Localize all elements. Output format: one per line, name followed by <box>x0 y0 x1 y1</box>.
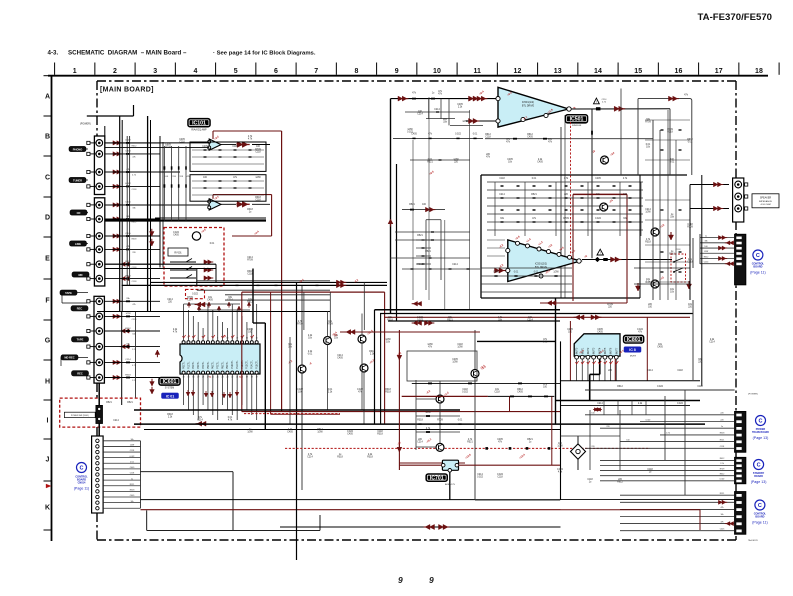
red diode pair D601 <box>149 232 154 237</box>
svg-text:IC501(1/2): IC501(1/2) <box>522 100 534 104</box>
connector CN601 speaker <box>733 178 744 222</box>
svg-text:10: 10 <box>433 68 441 75</box>
svg-text:R612: R612 <box>125 328 131 330</box>
thick bus y309.8 <box>375 309 561 311</box>
svg-text:F: F <box>45 297 50 304</box>
svg-text:R318: R318 <box>130 490 135 492</box>
left ruler ticks <box>44 75 52 77</box>
svg-text:C118: C118 <box>179 176 183 178</box>
svg-text:R318: R318 <box>367 457 373 459</box>
svg-text:IC501: IC501 <box>570 117 584 123</box>
jack J9 <box>96 261 103 268</box>
svg-text:C405: C405 <box>347 434 353 436</box>
bus y424 main <box>134 423 705 425</box>
svg-text:8: 8 <box>217 338 218 340</box>
amp resistor grid <box>487 181 643 183</box>
svg-text:C214: C214 <box>197 420 203 422</box>
svg-text:NJM2068: NJM2068 <box>572 125 582 127</box>
svg-text:C405: C405 <box>202 146 208 148</box>
svg-text:0.01: 0.01 <box>670 162 675 164</box>
transistor Q501 <box>601 156 609 164</box>
svg-text:C214: C214 <box>434 109 440 111</box>
gray vertical x475 <box>474 330 476 500</box>
bus y410 <box>134 409 460 411</box>
IC101 label <box>188 119 210 127</box>
svg-text:MD: MD <box>78 273 82 277</box>
svg-text:R318: R318 <box>669 254 675 256</box>
svg-text:LINE: LINE <box>75 242 81 246</box>
svg-text:R521: R521 <box>447 320 453 322</box>
svg-text:10k: 10k <box>130 501 133 503</box>
svg-text:MUT3: MUT3 <box>594 347 596 354</box>
svg-text:P5CTL: P5CTL <box>207 361 210 369</box>
power wires into box <box>98 383 100 405</box>
svg-text:30: 30 <box>192 377 194 379</box>
svg-text:C405: C405 <box>720 528 725 530</box>
amp2 input arrows <box>499 268 504 273</box>
wire top power feed <box>87 115 134 117</box>
svg-text:5: 5 <box>203 338 204 340</box>
svg-text:47k: 47k <box>186 176 189 178</box>
svg-text:22: 22 <box>231 377 233 379</box>
svg-text:0.01: 0.01 <box>534 272 539 274</box>
CN803 blue symbol <box>755 500 765 510</box>
IC801 label <box>624 335 644 343</box>
svg-text:I: I <box>47 417 49 424</box>
svg-text:C405: C405 <box>125 233 131 235</box>
svg-text:IMPEDANCE: IMPEDANCE <box>759 200 773 203</box>
wire center vertical bus 1 <box>296 282 298 560</box>
components column x416-431 <box>416 239 431 241</box>
svg-text:28: 28 <box>202 377 204 379</box>
IC IC701 regulator <box>442 460 458 470</box>
svg-text:11: 11 <box>473 68 481 75</box>
svg-text:1u: 1u <box>131 478 133 480</box>
svg-text:R709: R709 <box>327 324 333 326</box>
board outline right <box>735 81 737 540</box>
svg-text:R521: R521 <box>417 235 423 237</box>
svg-text:C214: C214 <box>597 403 603 405</box>
svg-text:TRANS BOARD: TRANS BOARD <box>752 431 769 434</box>
maroon vertical x399 <box>398 330 400 470</box>
verticals left band <box>303 292 305 330</box>
svg-text:IC801: IC801 <box>627 337 641 343</box>
svg-text:1/2W: 1/2W <box>457 347 463 349</box>
svg-text:1u: 1u <box>705 235 707 237</box>
transistor Q602 <box>298 365 306 373</box>
svg-text:R318: R318 <box>337 457 343 459</box>
svg-text:R709: R709 <box>165 147 171 149</box>
svg-text:100: 100 <box>704 246 707 248</box>
svg-text:47k: 47k <box>720 521 723 523</box>
jack row arrows <box>117 141 121 145</box>
svg-text:MUT2: MUT2 <box>588 347 590 354</box>
svg-text:CN814: CN814 <box>78 482 86 485</box>
svg-text:C118: C118 <box>494 392 500 394</box>
svg-text:1/2W: 1/2W <box>452 362 458 364</box>
svg-text:R318: R318 <box>417 420 423 422</box>
svg-text:C405: C405 <box>537 162 543 164</box>
svg-text:P4CTL: P4CTL <box>202 361 205 369</box>
bus y383.4 left <box>412 382 561 384</box>
svg-text:220: 220 <box>591 446 594 448</box>
svg-text:R521: R521 <box>127 402 133 404</box>
svg-text:BOARD: BOARD <box>755 516 764 519</box>
svg-text:15: 15 <box>634 68 642 75</box>
svg-text:R709: R709 <box>563 218 569 220</box>
muting relay dashed box RY601 <box>164 228 224 287</box>
IC701 label <box>426 474 447 481</box>
svg-text:C405: C405 <box>337 358 343 360</box>
IC601 top red marks <box>182 335 185 338</box>
svg-text:C118: C118 <box>697 386 703 388</box>
svg-text:C214: C214 <box>125 359 131 361</box>
maroon bus y317.3 <box>384 316 690 318</box>
svg-text:C214: C214 <box>647 370 653 372</box>
svg-text:SPEAKER: SPEAKER <box>760 197 772 200</box>
power switch body <box>96 405 103 423</box>
transistor Q601 <box>324 337 332 345</box>
svg-text:10: 10 <box>226 338 228 340</box>
svg-text:R521: R521 <box>425 251 431 253</box>
jack J10 <box>96 275 103 282</box>
svg-text:C405: C405 <box>657 347 663 349</box>
svg-text:R521: R521 <box>409 204 415 206</box>
mute dashed box 2 <box>186 289 205 298</box>
svg-text:R709: R709 <box>297 324 303 326</box>
svg-text:C: C <box>756 253 760 259</box>
svg-text:1/2W: 1/2W <box>317 432 323 434</box>
amp out wire right <box>571 108 670 110</box>
jack J13 <box>96 328 103 335</box>
svg-text:C214: C214 <box>452 264 458 266</box>
transistor Q603 <box>358 335 366 343</box>
svg-text:19: 19 <box>246 377 248 379</box>
connector CN802 control <box>735 234 746 284</box>
svg-text:D: D <box>45 214 50 221</box>
connector CN901 power <box>735 412 746 453</box>
maroon left arrow y332 <box>340 331 480 333</box>
left ruler red mark <box>46 484 51 488</box>
svg-text:1: 1 <box>73 68 77 75</box>
transistor Q505 <box>651 228 659 236</box>
svg-text:REC: REC <box>77 372 83 376</box>
svg-text:R318: R318 <box>125 374 131 376</box>
row y269 gray <box>402 268 480 270</box>
transistor Q703 <box>436 443 444 451</box>
power switch dashed box <box>60 398 141 427</box>
maroon arrows bottom <box>280 526 561 528</box>
bus band y281-301 <box>197 280 330 282</box>
svg-text:(Page 11): (Page 11) <box>750 271 766 275</box>
svg-text:BTL DRIVE: BTL DRIVE <box>522 105 535 108</box>
jack J3 <box>96 169 103 176</box>
relay contact box <box>168 248 188 256</box>
svg-text:R709: R709 <box>687 227 693 229</box>
wire vertical bus pair C <box>126 136 128 286</box>
svg-text:C118: C118 <box>677 370 683 372</box>
svg-text:220: 220 <box>720 413 723 415</box>
svg-text:10k: 10k <box>130 439 133 441</box>
CN803 feed wires <box>620 494 735 496</box>
svg-text:C118: C118 <box>130 473 134 475</box>
CN901 blue symbol <box>756 416 766 426</box>
op-amp IC101 2/2 <box>209 199 221 210</box>
ferrite bead FB102 <box>242 201 248 207</box>
svg-text:0.022: 0.022 <box>677 403 683 405</box>
svg-text:32: 32 <box>183 377 185 379</box>
svg-text:P6CTL: P6CTL <box>212 361 215 369</box>
svg-text:C118: C118 <box>720 446 724 448</box>
bus band y262-268 <box>105 263 216 265</box>
svg-text:1/2W: 1/2W <box>255 177 261 179</box>
vertical x560 down <box>560 341 562 499</box>
svg-text:R318: R318 <box>417 264 423 266</box>
warning triangle 1 <box>594 98 600 104</box>
IC801 thick L wire <box>599 359 601 375</box>
svg-text:TA-FE370/FE570: TA-FE370/FE570 <box>698 12 772 23</box>
svg-text:1/2W: 1/2W <box>557 446 563 448</box>
svg-text:MUT5: MUT5 <box>605 347 607 354</box>
svg-text:17: 17 <box>715 68 723 75</box>
right verticals power <box>639 175 641 298</box>
svg-text:R612: R612 <box>125 261 131 263</box>
maroon arrows mid band <box>413 301 418 306</box>
transistor Q506 <box>651 280 659 288</box>
maroon up arrow x390 <box>388 219 393 224</box>
svg-text:IC101: IC101 <box>192 121 206 127</box>
CN901 feed wires <box>585 414 735 416</box>
svg-text:R521: R521 <box>106 402 112 404</box>
svg-text:C214: C214 <box>113 420 119 422</box>
center mesh verticals <box>412 140 414 300</box>
svg-text:R709: R709 <box>645 122 651 124</box>
maroon feedback loop L <box>212 131 214 139</box>
svg-text:C214: C214 <box>709 342 715 344</box>
svg-text:23: 23 <box>226 377 228 379</box>
amp feedback row y138.7 <box>485 138 653 140</box>
svg-text:0.022: 0.022 <box>125 183 131 185</box>
right horizontals stubs <box>645 119 690 121</box>
filter box internals <box>192 149 264 151</box>
svg-text:31: 31 <box>187 377 189 379</box>
svg-text:A: A <box>45 93 50 100</box>
transistor Q604 <box>360 364 368 372</box>
rows near Q702 <box>416 415 460 417</box>
IC801 blue badge <box>624 347 641 353</box>
IC601 blue badge <box>162 393 179 399</box>
svg-text:P2CTL: P2CTL <box>192 361 195 369</box>
svg-text:18: 18 <box>755 68 763 75</box>
svg-text:· See page 14 for IC Block Dia: · See page 14 for IC Block Diagrams. <box>213 50 316 56</box>
filter loop box upper <box>190 142 266 171</box>
svg-text:(POWER): (POWER) <box>80 123 91 126</box>
svg-text:R521: R521 <box>427 162 433 164</box>
svg-text:TA-FE370: TA-FE370 <box>748 539 759 542</box>
svg-text:C214: C214 <box>417 114 423 116</box>
svg-text:R709: R709 <box>437 420 443 422</box>
wire vertical bus pair B <box>159 136 161 268</box>
svg-text:!: ! <box>596 100 597 104</box>
svg-text:MUTE: MUTE <box>630 356 637 358</box>
svg-text:C: C <box>45 174 50 181</box>
svg-text:0.022: 0.022 <box>462 392 468 394</box>
svg-text:0.022: 0.022 <box>477 477 483 479</box>
svg-text:0.01: 0.01 <box>210 243 215 245</box>
wires bottom long <box>561 499 735 501</box>
svg-text:9: 9 <box>429 575 434 585</box>
svg-text:4: 4 <box>193 68 197 75</box>
jack J11 <box>96 298 103 305</box>
svg-text:(POWER): (POWER) <box>748 394 758 396</box>
row y209.6 with arrow <box>402 209 445 211</box>
IC801 region verticals <box>603 401 605 416</box>
jack J7 <box>96 233 103 240</box>
CN802 blue page symbol <box>753 250 763 260</box>
IC601 bottom pin wires <box>183 374 185 405</box>
svg-text:C405: C405 <box>493 272 499 274</box>
svg-text:0.01: 0.01 <box>688 142 693 144</box>
svg-text:BOARD: BOARD <box>753 266 762 269</box>
svg-text:12: 12 <box>514 68 522 75</box>
CN601 label box <box>752 194 779 208</box>
svg-text:18: 18 <box>251 377 253 379</box>
IC601 top pin junction bus <box>184 303 240 305</box>
output relay dashed box <box>671 254 686 282</box>
transistor Q502 <box>600 203 608 211</box>
amp2 out <box>582 259 672 261</box>
svg-text:RIAA EQ AMP: RIAA EQ AMP <box>191 129 207 132</box>
svg-text:IC 01: IC 01 <box>166 394 175 398</box>
svg-text:C214: C214 <box>171 176 176 178</box>
svg-text:C118: C118 <box>232 146 238 148</box>
connector CN814 <box>92 436 104 513</box>
svg-text:14: 14 <box>594 68 602 75</box>
long verticals to connectors <box>701 175 703 386</box>
svg-text:R612: R612 <box>704 256 709 258</box>
svg-text:TAPE: TAPE <box>65 291 72 295</box>
svg-text:B: B <box>45 133 50 140</box>
maroon loop right-bottom <box>402 395 488 397</box>
svg-text:C405: C405 <box>130 495 135 497</box>
wires into CN802 from left <box>699 234 701 264</box>
svg-text:16: 16 <box>256 338 258 340</box>
svg-text:P0CTL: P0CTL <box>182 361 185 369</box>
plate connecting wires <box>86 148 88 150</box>
svg-text:0.01: 0.01 <box>130 461 134 463</box>
IC IC801 <box>574 334 620 356</box>
bus y429.5 <box>144 429 561 431</box>
svg-text:R521: R521 <box>720 493 725 495</box>
svg-text:10k: 10k <box>720 514 723 516</box>
svg-text:1/2W: 1/2W <box>425 412 431 414</box>
svg-text:47k: 47k <box>720 507 723 509</box>
wire input line to amp <box>391 98 498 100</box>
svg-text:C118: C118 <box>179 142 185 144</box>
box around Q7 block <box>407 351 477 381</box>
svg-text:IC501(2/2): IC501(2/2) <box>535 262 547 266</box>
CN814 blue page symbol <box>77 463 87 473</box>
svg-text:C: C <box>757 463 761 469</box>
svg-text:47k: 47k <box>132 304 135 306</box>
svg-text:0.022: 0.022 <box>130 456 135 458</box>
svg-text:2: 2 <box>113 68 117 75</box>
svg-text:H: H <box>45 378 50 385</box>
bus y405.4 <box>560 404 690 406</box>
svg-text:8: 8 <box>354 68 358 75</box>
bus y400.5 thick <box>555 400 700 402</box>
svg-text:14: 14 <box>246 338 248 340</box>
red dashed vertical feedback <box>570 122 572 256</box>
maroon feedback loop R <box>212 195 214 199</box>
svg-text:P3CTL: P3CTL <box>197 361 200 369</box>
svg-text:4: 4 <box>198 338 199 340</box>
red dashed bus components <box>485 447 488 450</box>
svg-text:11: 11 <box>231 338 233 340</box>
svg-text:BOARD: BOARD <box>754 475 763 478</box>
svg-text:C118: C118 <box>255 152 261 154</box>
svg-text:0.022: 0.022 <box>646 419 651 421</box>
svg-text:!: ! <box>600 251 601 255</box>
svg-text:C214: C214 <box>527 320 533 322</box>
bridge diode D801 <box>571 444 586 459</box>
svg-text:C214: C214 <box>704 262 709 264</box>
svg-text:P14CTL: P14CTL <box>251 360 254 369</box>
maroon arrows y317 <box>575 315 580 320</box>
svg-text:0.01: 0.01 <box>532 178 537 180</box>
svg-text:MD REC: MD REC <box>64 356 74 360</box>
svg-text:R318: R318 <box>385 392 391 394</box>
maroon bus y411.6 <box>242 411 560 413</box>
svg-text:(Page 11): (Page 11) <box>74 487 90 491</box>
IC501b middle triangle <box>508 240 581 282</box>
svg-text:16: 16 <box>675 68 683 75</box>
svg-text:POWER: POWER <box>756 428 766 431</box>
svg-text:47k: 47k <box>132 157 135 159</box>
amp lower rows <box>481 267 572 269</box>
svg-text:1/2W: 1/2W <box>130 445 135 447</box>
svg-text:9: 9 <box>398 575 403 585</box>
svg-text:0.01: 0.01 <box>308 354 313 356</box>
thick corner x477 y341 <box>477 340 556 342</box>
red dashed bus y448.4 <box>285 447 650 449</box>
svg-text:P7CTL: P7CTL <box>216 361 219 369</box>
jack J8 <box>96 246 103 253</box>
svg-text:0.01: 0.01 <box>165 176 169 178</box>
svg-text:E: E <box>45 255 50 262</box>
jack J16 <box>96 374 103 381</box>
svg-text:C118: C118 <box>255 200 261 202</box>
svg-text:C405: C405 <box>130 467 135 469</box>
svg-text:C405: C405 <box>287 432 293 434</box>
svg-text:C118: C118 <box>497 477 503 479</box>
svg-text:IC 8: IC 8 <box>629 348 636 352</box>
wire vertical bus pair B <box>119 116 121 311</box>
svg-text:0.01: 0.01 <box>543 342 548 344</box>
svg-text:C118: C118 <box>247 274 253 276</box>
jack J2 <box>96 151 103 158</box>
amp input arrows <box>473 96 478 101</box>
svg-text:SYSTEM: SYSTEM <box>165 388 175 390</box>
svg-text:R709: R709 <box>247 260 253 262</box>
tiny arrows y409.5 <box>594 408 598 412</box>
svg-text:CD: CD <box>77 211 81 215</box>
wires bottom right region <box>561 435 621 437</box>
filter loop box lower <box>190 175 266 202</box>
wire vertical bus pair A <box>147 116 149 311</box>
amp grid mid rows <box>487 239 505 241</box>
svg-text:12: 12 <box>236 338 238 340</box>
